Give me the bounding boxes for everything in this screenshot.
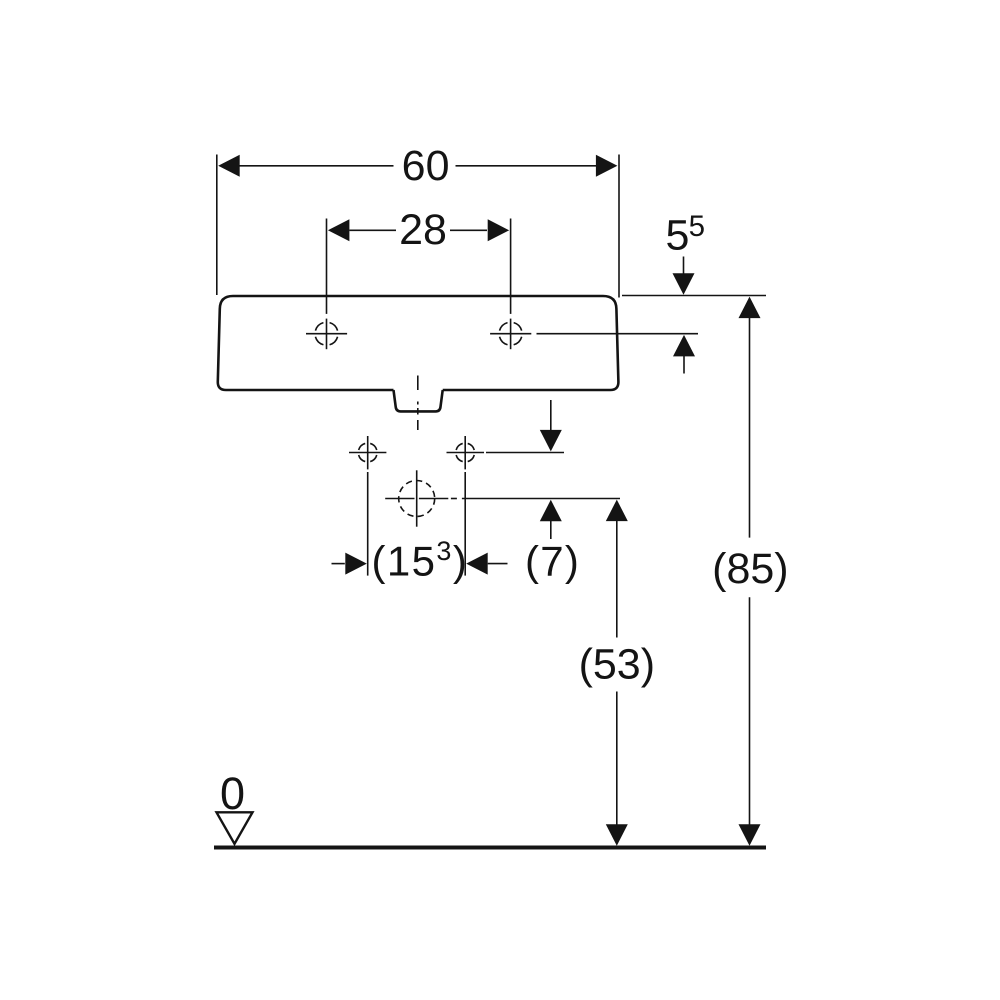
svg-text:(85): (85) bbox=[712, 545, 788, 593]
svg-text:(53): (53) bbox=[579, 640, 655, 688]
svg-text:5: 5 bbox=[689, 210, 705, 243]
svg-text:(7): (7) bbox=[525, 538, 580, 585]
svg-text:(153): (153) bbox=[372, 536, 469, 585]
svg-text:28: 28 bbox=[399, 206, 447, 254]
svg-text:5: 5 bbox=[666, 211, 690, 259]
svg-text:60: 60 bbox=[402, 142, 450, 190]
